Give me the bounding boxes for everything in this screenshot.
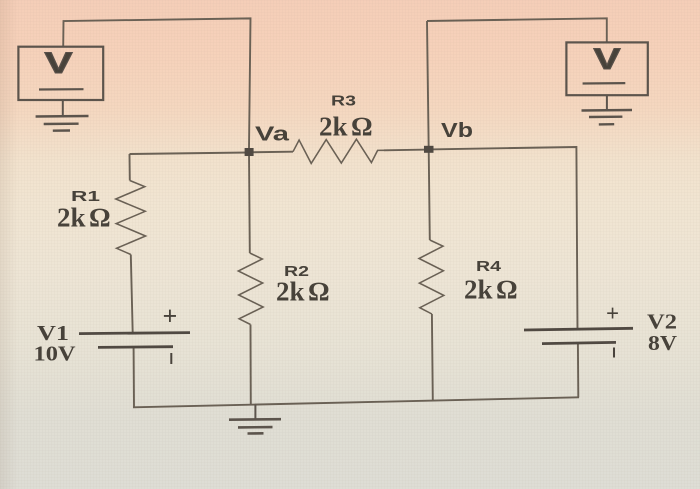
wire Vb column top: [427, 21, 429, 150]
resistor R4: [419, 240, 444, 314]
label R4 value: [464, 258, 517, 305]
wire R2 bottom lead: [250, 325, 252, 405]
battery V2: [524, 301, 678, 358]
resistor R3: [293, 139, 384, 163]
wire battery V2 to bottom: [577, 343, 579, 397]
node Vb: [424, 120, 473, 153]
node Va: [245, 124, 291, 157]
wire Va to R3: [249, 151, 293, 154]
wire battery V1 to bottom: [133, 347, 135, 407]
label R1 value: [57, 188, 110, 233]
resistor R1: [116, 181, 146, 255]
ground (left meter): [36, 100, 89, 131]
wire Vb to right branch: [429, 147, 578, 329]
wire top-left loop: [63, 18, 250, 148]
wire Vb to R4: [429, 150, 430, 241]
label R2 value: [276, 263, 329, 307]
voltmeter U2: [566, 42, 647, 95]
wire R3 to Vb: [384, 149, 429, 152]
battery V1: [34, 302, 191, 366]
wire Va to left: [130, 153, 250, 155]
wire R4 bottom lead: [431, 314, 434, 401]
ground: [229, 405, 281, 434]
wire R1 top lead: [129, 154, 131, 181]
wire R2 top lead: [248, 152, 251, 253]
ground (right meter): [582, 95, 633, 124]
label R3 value: [319, 93, 372, 142]
wire bottom rail: [133, 397, 579, 407]
resistor R2: [238, 253, 263, 325]
wire R1 bottom lead: [131, 255, 133, 334]
wire top-right loop: [427, 18, 607, 42]
voltmeter U1: [18, 47, 103, 100]
